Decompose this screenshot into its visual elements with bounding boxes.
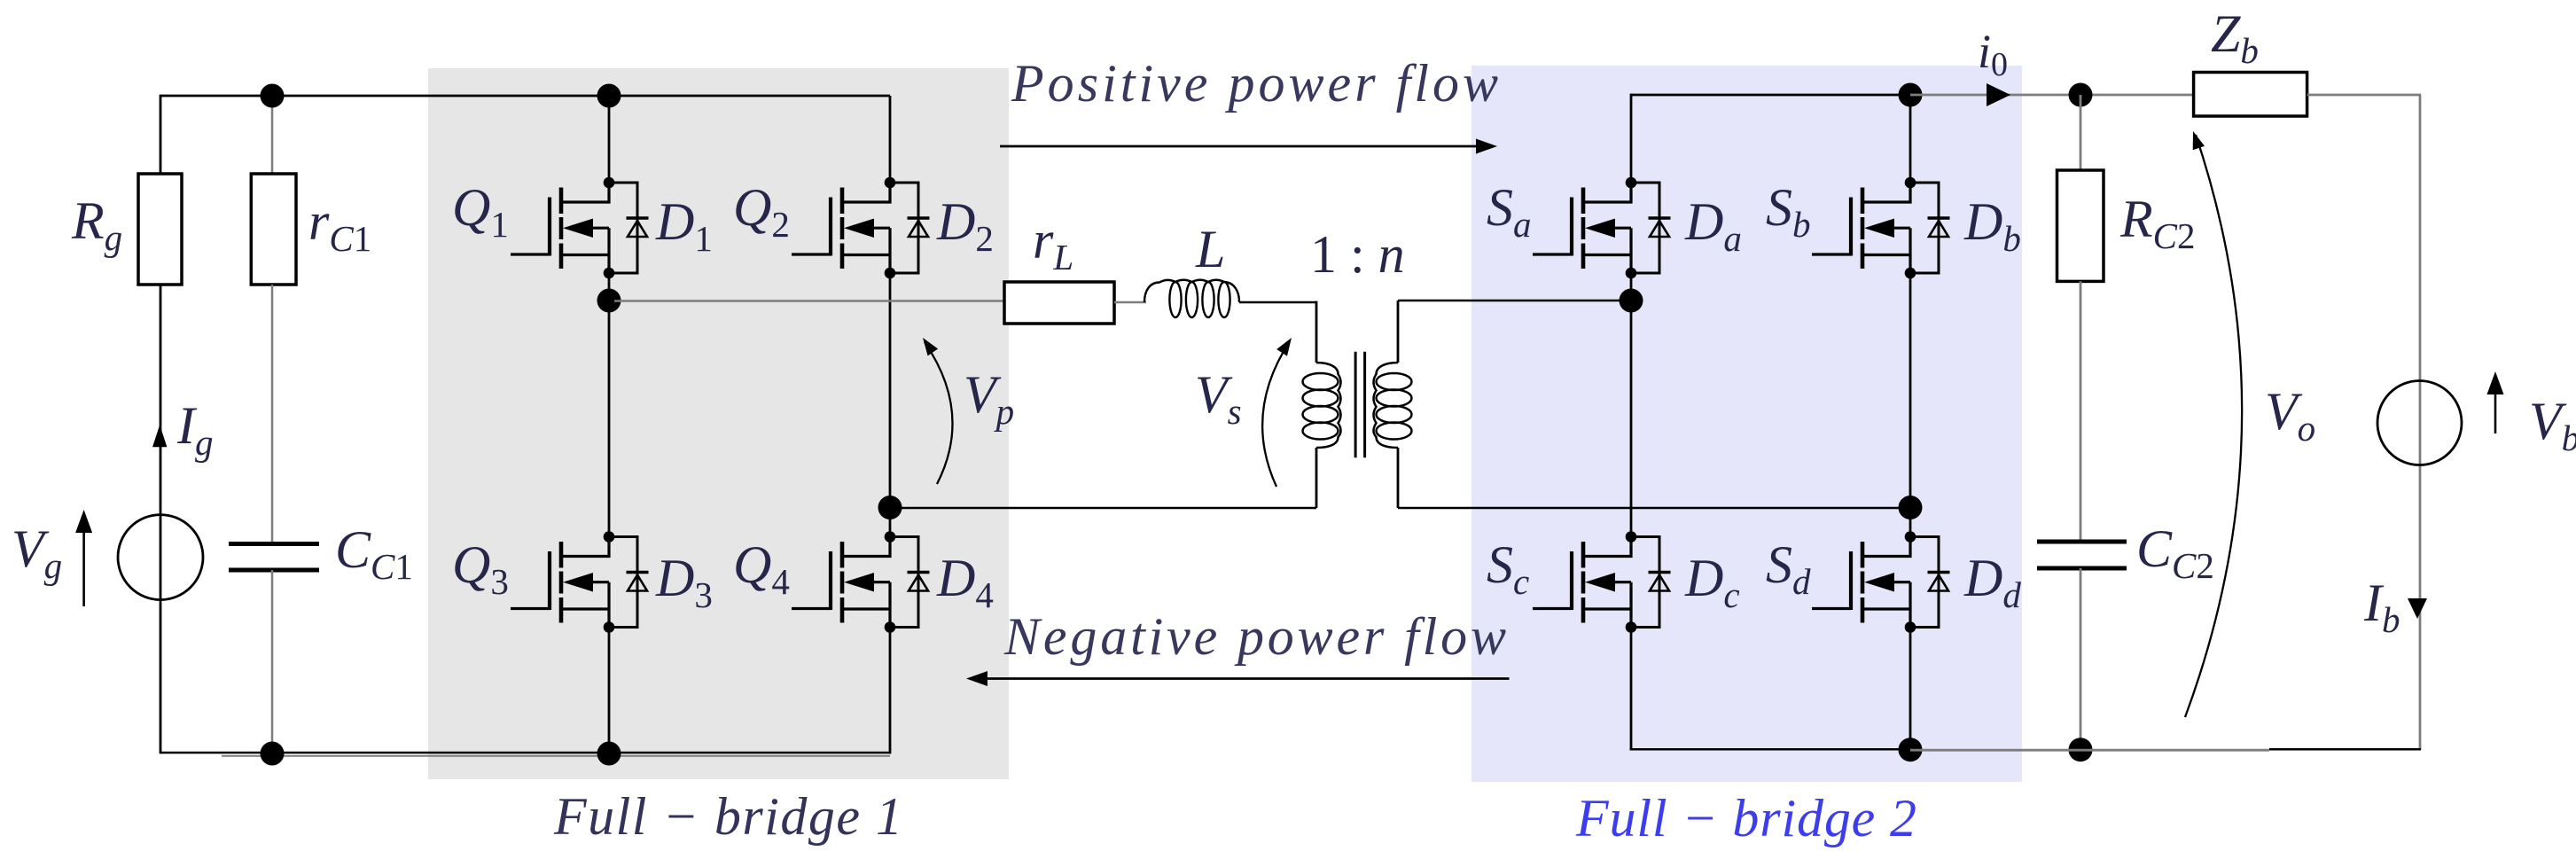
wire L to transformer: [1239, 301, 1316, 304]
wire Q1 source to node A: [608, 273, 611, 301]
capacitor CC2: [2037, 540, 2127, 544]
wire Sc source to bottom rail: [1630, 628, 1633, 751]
svg-text:rL: rL: [1033, 211, 1073, 277]
resistor Zb: [2194, 73, 2307, 117]
wire Zb to right corner: [2307, 94, 2421, 97]
wire CC1 branch lower: [271, 570, 274, 754]
arrow positive power flow: [1000, 145, 1479, 148]
svg-text:Ib: Ib: [2363, 574, 2400, 640]
svg-text:Ig: Ig: [176, 396, 213, 463]
arrow negative power flow: [985, 677, 1510, 680]
wire top rail bridge2: [1631, 94, 1910, 97]
wire Q2 leg upper: [889, 96, 892, 183]
wire top rail left: [160, 95, 890, 98]
voltage arrow Vb: [2494, 394, 2497, 433]
svg-text:Vs: Vs: [1195, 365, 1242, 432]
wire node D to Sd: [1909, 508, 1912, 537]
node top rail Q1: [597, 84, 621, 108]
resistor RC2: [2057, 170, 2104, 281]
wire Sb leg upper: [1909, 95, 1912, 183]
wire CC2 branch lower: [2080, 568, 2082, 750]
svg-text:RC2: RC2: [2119, 190, 2196, 256]
resistor rL: [1004, 282, 1114, 324]
wire secondary top lead: [1397, 301, 1400, 363]
wire primary top lead: [1315, 301, 1318, 363]
svg-text:Zb: Zb: [2211, 4, 2259, 71]
wire node A to rL: [614, 300, 1004, 302]
resistor rC1: [251, 174, 296, 285]
transistor Q4: [792, 531, 930, 633]
wire secondary bottom lead: [1397, 448, 1400, 508]
wire rC1 to CC1: [271, 285, 274, 543]
node bottom rail CC1: [261, 742, 285, 766]
inductor L: [1144, 280, 1239, 302]
wire left branch lower: [160, 285, 162, 754]
voltage arc Vp: [925, 342, 953, 484]
wire rC1 branch upper: [271, 96, 274, 174]
wire node B to Q4: [889, 508, 892, 537]
transistor Sb: [1812, 177, 1950, 279]
svg-text:Vo: Vo: [2265, 382, 2315, 449]
svg-text:CC1: CC1: [335, 520, 413, 587]
node bottom rail Q3: [597, 742, 621, 766]
source Vb circle: [2377, 381, 2462, 465]
wire Q4 source to bottom rail: [889, 628, 892, 754]
svg-text:rC1: rC1: [308, 192, 371, 259]
full-bridge 1 shaded region: [428, 68, 1009, 779]
svg-text:Full − bridge 1: Full − bridge 1: [553, 787, 902, 846]
transistor Q3: [511, 531, 649, 633]
wire bottom rail right corner: [2269, 748, 2421, 751]
current arrow Ib: [2408, 598, 2427, 619]
svg-text:Vg: Vg: [12, 519, 62, 586]
node bottom rail Sd: [1899, 738, 1923, 761]
wire bottom rail bridge2: [1630, 748, 1910, 751]
transistor Sc: [1533, 531, 1671, 633]
voltage arrow Vg: [82, 531, 85, 606]
node top rail Sb: [1899, 83, 1923, 107]
current arrow i0: [1987, 83, 2010, 106]
wire Q3 source to bottom rail: [608, 628, 611, 754]
transistor Sd: [1812, 531, 1950, 633]
full-bridge 2 shaded region: [1471, 66, 2022, 782]
wire Sd source to bottom rail: [1909, 628, 1912, 751]
wire bottom rail right middle: [1910, 749, 2269, 752]
voltage arc Vo: [2185, 135, 2242, 717]
transistor Q1: [511, 177, 649, 279]
wire right edge: [2419, 95, 2422, 750]
wire Sa source to node C: [1630, 273, 1633, 301]
svg-text:Rg: Rg: [71, 191, 122, 258]
wire bottom rail left: [160, 752, 890, 754]
svg-text:Negative power flow: Negative power flow: [1003, 607, 1506, 666]
node top rail RC2: [2069, 83, 2093, 107]
wire node C to Sc: [1630, 301, 1633, 537]
wire left branch upper: [160, 95, 162, 174]
wire RC2 to CC2: [2080, 281, 2082, 542]
node top rail rC1: [261, 84, 285, 108]
current arrow Ig: [152, 425, 167, 447]
svg-text:1 : n: 1 : n: [1310, 225, 1405, 284]
wire rL to L: [1114, 301, 1146, 304]
wire Q1 leg upper: [608, 96, 611, 183]
svg-text:Full − bridge 2: Full − bridge 2: [1575, 789, 1916, 847]
wire primary bottom lead: [1315, 448, 1318, 508]
transformer primary winding: [1316, 363, 1341, 448]
wire Sb source to node D: [1909, 273, 1912, 508]
node B bridge1 right midpoint: [878, 496, 902, 519]
resistor Rg: [138, 174, 182, 285]
svg-text:CC2: CC2: [2136, 519, 2214, 586]
transformer secondary winding: [1374, 363, 1399, 448]
source Vg circle: [118, 515, 203, 600]
node A bridge1 left midpoint: [597, 289, 621, 313]
wire Q2 source to node B: [889, 273, 892, 508]
wire top rail right: [1910, 94, 2194, 97]
wire node A to Q3: [608, 301, 611, 537]
svg-text:i0: i0: [1978, 25, 2008, 83]
voltage arc Vs: [1262, 341, 1290, 487]
node C bridge2 left midpoint: [1620, 289, 1643, 313]
node bottom rail CC2: [2069, 738, 2093, 761]
node D bridge2 right midpoint: [1899, 496, 1923, 519]
transistor Q2: [792, 177, 930, 279]
svg-text:Positive power flow: Positive power flow: [1011, 54, 1498, 113]
wire RC2 branch upper: [2080, 95, 2082, 170]
wire Sa leg upper: [1630, 94, 1633, 183]
capacitor CC1: [229, 542, 319, 546]
transformer core: [1354, 352, 1357, 458]
transistor Sa: [1533, 177, 1671, 279]
svg-text:Vb: Vb: [2529, 392, 2576, 458]
svg-text:L: L: [1195, 220, 1225, 278]
